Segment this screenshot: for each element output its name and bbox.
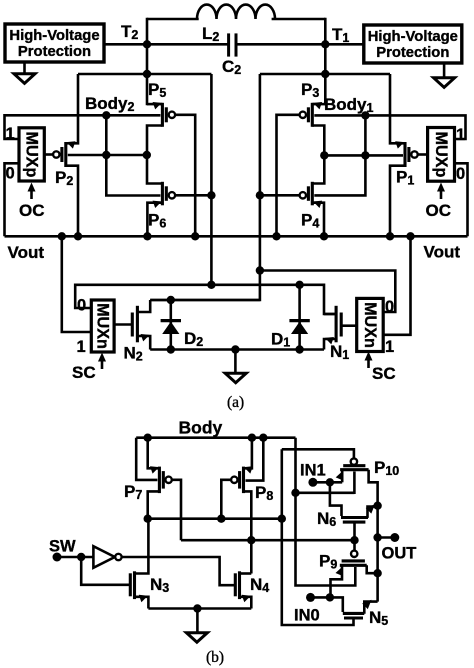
wire IN0 to N5 xyxy=(330,597,343,612)
node phaseA P7drain xyxy=(144,515,152,523)
transistor P4 channel xyxy=(311,182,314,206)
wire OUT stub xyxy=(378,536,395,539)
wire MUXn-left output xyxy=(114,323,132,326)
wire MUXn-right output xyxy=(341,324,357,327)
transistor P4 gate xyxy=(307,186,310,201)
node Vout muxn1-left xyxy=(58,232,66,240)
high-voltage protection box left xyxy=(5,24,104,62)
wire Body rail xyxy=(136,436,295,439)
wire P10 body branch xyxy=(296,491,355,494)
wire IN0 xyxy=(311,596,330,599)
node IN1 junction xyxy=(326,478,334,486)
mux MUXp right box xyxy=(428,128,455,182)
node Vout P4 source xyxy=(320,232,328,240)
wire body drop xyxy=(296,438,356,586)
wire P6 gate line xyxy=(175,194,212,197)
transistor P7 drain xyxy=(148,491,160,518)
node D2 bottom xyxy=(167,345,175,353)
transistor N1 source xyxy=(324,339,336,350)
transistor P10 gate bubble xyxy=(351,458,357,464)
svg-text:Body1: Body1 xyxy=(324,95,374,115)
svg-text:Protection: Protection xyxy=(18,44,91,60)
wire P2 body line y155 xyxy=(68,154,147,157)
transistor N4 gate xyxy=(234,573,237,596)
svg-text:IN0: IN0 xyxy=(294,607,320,625)
svg-text:Body: Body xyxy=(179,418,223,438)
transistor N1 channel xyxy=(335,306,338,343)
node gates-drop P4 gate xyxy=(256,191,264,199)
svg-text:High-Voltage: High-Voltage xyxy=(9,28,99,44)
transistor P2 gate bubble xyxy=(53,151,59,157)
node gates-drop to y285 xyxy=(207,281,215,289)
transistor N3 source xyxy=(135,597,149,609)
node phaseA P8gate xyxy=(217,515,225,523)
oc arrow left xyxy=(30,189,33,200)
svg-text:IN1: IN1 xyxy=(300,462,326,480)
wire P8 gate riser to phaseA xyxy=(221,480,231,519)
transistor P3 gate bubble xyxy=(300,112,306,118)
wire MUXp-left input 0 from Vout xyxy=(5,163,20,236)
wire IN1 xyxy=(313,481,342,484)
transistor P8 body wrap xyxy=(246,438,264,481)
node OUT stub xyxy=(373,533,381,541)
capacitor C2 xyxy=(227,33,230,56)
node on T1 rail y74 xyxy=(321,70,329,78)
ground below right HV box xyxy=(443,63,446,78)
node body1-drop on P1 body line xyxy=(361,151,369,159)
svg-text:Vout: Vout xyxy=(8,243,45,262)
transistor P9 source xyxy=(331,565,343,597)
node IN0 junction xyxy=(326,593,334,601)
node OUT terminal xyxy=(390,533,399,542)
sc arrow right xyxy=(367,358,370,369)
transistor P10 drain xyxy=(369,470,378,506)
wire Vout rail xyxy=(5,235,468,238)
transistor N6 gate xyxy=(343,521,366,524)
wire MUXn-left input1 from Vout xyxy=(62,236,92,332)
node OUT P9drain xyxy=(373,569,381,577)
node phaseA riser xyxy=(278,515,286,523)
transistor N2 drain xyxy=(137,300,150,312)
transistor P2 source xyxy=(66,74,78,143)
transistor P8 gate bubble xyxy=(231,477,237,483)
wire bottom rail xyxy=(150,348,324,351)
transistor P10 gate xyxy=(343,464,365,467)
oc arrow right xyxy=(440,189,443,200)
transistor P8 source xyxy=(244,438,252,469)
node Vout muxn1-right xyxy=(406,232,414,240)
transistor P6 drain stub xyxy=(147,155,162,184)
transistor P10 source xyxy=(341,470,344,483)
transistor N1 drain xyxy=(324,313,336,316)
transistor P1 channel xyxy=(403,142,406,167)
wire T1-to-gates drop xyxy=(150,74,260,300)
ground b xyxy=(196,609,199,633)
node SW junction xyxy=(77,553,85,561)
transistor P6 source stub xyxy=(147,203,162,237)
node T1-drop y270 xyxy=(256,266,264,274)
node Vout P1 drain xyxy=(386,232,394,240)
node Vout P2 drain xyxy=(74,232,82,240)
ground below left HV box xyxy=(23,62,26,74)
transistor N1 gate xyxy=(340,313,343,337)
svg-text:0: 0 xyxy=(77,297,86,315)
wire P5 gate to Vout xyxy=(175,115,196,237)
sc arrow left xyxy=(101,359,104,370)
transistor P7 body wrap xyxy=(136,438,157,480)
node body drop P10 branch xyxy=(291,489,299,497)
svg-text:OUT: OUT xyxy=(382,545,417,563)
wire D2 top rail xyxy=(150,299,260,302)
transistor N3 gate xyxy=(129,573,132,596)
transistor N6 gate stub xyxy=(353,522,356,540)
transistor P6 gate bubble xyxy=(169,192,175,198)
svg-text:(b): (b) xyxy=(206,649,224,666)
transistor P5 channel xyxy=(161,103,164,127)
inductor L2 xyxy=(197,5,275,19)
wire body2 drop to P2-body line and P6 body xyxy=(106,115,160,195)
node T1 junction xyxy=(321,40,329,48)
transistor P9 gate bubble xyxy=(351,551,357,557)
wire IN1 to N6 xyxy=(330,482,342,516)
transistor N3 channel xyxy=(133,571,136,599)
node OUT P10drain xyxy=(373,502,381,510)
svg-text:Body2: Body2 xyxy=(85,94,135,114)
transistor P1 gate xyxy=(407,147,410,162)
transistor P9 drain xyxy=(367,565,378,573)
node b ground xyxy=(193,604,201,612)
transistor P9 channel xyxy=(340,564,367,567)
transistor P4 source stub xyxy=(312,203,324,237)
node T2 junction xyxy=(143,40,151,48)
transistor P2 channel xyxy=(64,142,67,167)
transistor P2 drain xyxy=(66,166,78,237)
wire top rail between T2 and T1 xyxy=(147,18,199,21)
transistor P7 channel xyxy=(158,467,161,494)
wire C2 horizontal xyxy=(104,43,229,46)
transistor N5 gate xyxy=(344,616,363,619)
node P7 source on rail xyxy=(144,434,152,442)
diode D1 xyxy=(298,285,301,350)
node Body2 tap xyxy=(102,111,110,119)
svg-text:SC: SC xyxy=(372,364,396,383)
transistor P5 gate bubble xyxy=(169,112,175,118)
svg-text:High-Voltage: High-Voltage xyxy=(368,29,458,45)
transistor P3 gate xyxy=(307,107,310,122)
svg-text:MUXp: MUXp xyxy=(23,131,41,177)
transistor P6 gate xyxy=(165,186,168,201)
node P5P6 junction xyxy=(143,151,151,159)
transistor P10 body stub xyxy=(353,472,356,495)
svg-text:0: 0 xyxy=(6,165,15,183)
mux MUXn left box xyxy=(91,300,114,352)
wire P7 gate riser to phaseB xyxy=(171,480,181,540)
svg-text:(a): (a) xyxy=(227,394,244,411)
wire Body1 line xyxy=(314,115,465,139)
wire phaseB line y540.2 xyxy=(181,539,355,542)
wire MUXp-right output to P1 gate xyxy=(418,153,428,156)
svg-text:MUXp: MUXp xyxy=(432,131,450,177)
transistor N4 source xyxy=(240,597,252,609)
transistor N6 source xyxy=(368,507,378,518)
wire P1 body line y155 xyxy=(324,154,403,157)
node P3P4 junction xyxy=(320,151,328,159)
transistor N6 channel xyxy=(341,516,368,519)
transistor N3 drain xyxy=(135,519,149,574)
transistor P5 gate xyxy=(165,107,168,122)
transistor P2 gate xyxy=(60,147,63,162)
wire MUXp-right input 0 from Vout xyxy=(455,163,468,236)
svg-text:1: 1 xyxy=(6,125,15,143)
node body2-drop on P2 body line xyxy=(102,151,110,159)
wire phaseB to P9 bubble xyxy=(353,540,356,550)
wire y74 right (gates-drop to T1 to P1 source) xyxy=(260,73,390,76)
transistor P5 drain stub xyxy=(147,126,162,156)
node Body1 tap xyxy=(361,111,369,119)
wire phaseA line y518.7 xyxy=(148,517,282,520)
wire b ground rail xyxy=(148,607,251,610)
transistor P10 channel xyxy=(340,468,369,471)
svg-text:MUXn: MUXn xyxy=(94,303,112,349)
node D1 bottom xyxy=(295,345,303,353)
node IN1 terminal xyxy=(308,478,317,487)
wire T2 rail xyxy=(146,18,149,106)
wire Body2 line xyxy=(5,115,161,139)
node IN0 terminal xyxy=(306,593,315,602)
transistor P4 gate bubble xyxy=(300,192,306,198)
svg-text:1: 1 xyxy=(456,126,465,144)
transistor P3 drain stub xyxy=(312,126,324,156)
transistor P8 gate xyxy=(238,471,241,489)
node Vout P5 gate xyxy=(191,232,199,240)
transistor P7 gate bubble xyxy=(165,477,171,483)
transistor N2 source xyxy=(137,336,150,350)
svg-text:1: 1 xyxy=(385,338,394,356)
wire SW to N3 gate xyxy=(81,557,130,585)
transistor P5 source stub xyxy=(147,103,162,106)
svg-text:OC: OC xyxy=(426,201,452,220)
mux MUXn right box xyxy=(357,298,384,351)
wire N-left drain rail y285 xyxy=(75,285,335,314)
transistor P8 drain xyxy=(244,491,252,573)
svg-text:MUXn: MUXn xyxy=(361,302,379,348)
transistor P9 gate xyxy=(342,559,365,562)
transistor N4 drain xyxy=(240,572,252,575)
transistor N2 gate xyxy=(131,313,134,337)
node SW terminal xyxy=(53,553,62,562)
svg-text:0: 0 xyxy=(456,165,465,183)
node phaseB gate stub xyxy=(350,536,358,544)
wire T1 rail xyxy=(324,18,327,106)
wire y74 left (P2 source to T2 to gates-drop) xyxy=(78,73,211,76)
mux MUXp left box xyxy=(19,128,44,181)
transistor P1 source xyxy=(390,74,405,143)
inverter U1 xyxy=(93,546,114,568)
node mid-ground xyxy=(231,345,239,353)
node phaseB N4drain xyxy=(247,536,255,544)
svg-text:OC: OC xyxy=(19,201,45,220)
transistor N2 channel xyxy=(136,306,139,343)
node on T2 rail y74 xyxy=(143,70,151,78)
wire P3 gate to Vout xyxy=(277,115,301,237)
transistor N5 source xyxy=(364,602,377,614)
node P8 body on rail xyxy=(259,434,267,442)
wire P4 gate line xyxy=(260,194,300,197)
transistor P8 channel xyxy=(242,467,245,494)
svg-text:Protection: Protection xyxy=(376,45,449,61)
transistor N5 channel xyxy=(343,612,365,615)
wire y270 to MUXn-right 0 xyxy=(260,271,395,313)
wire MUXp-left output to P2 gate xyxy=(44,153,53,156)
node Vout P3 gate xyxy=(272,232,280,240)
transistor P3 source stub xyxy=(312,103,325,106)
wire SW to inverter xyxy=(57,556,93,559)
wire body1 drop xyxy=(314,115,365,195)
diode D2 xyxy=(170,300,173,350)
transistor P1 gate bubble xyxy=(411,151,417,157)
svg-text:1: 1 xyxy=(77,338,86,356)
transistor N4 channel xyxy=(238,571,241,599)
svg-text:SC: SC xyxy=(72,363,96,382)
transistor P1 drain xyxy=(390,166,405,237)
transistor P4 drain stub xyxy=(312,155,324,183)
node gates-drop P6 gate xyxy=(207,191,215,199)
svg-text:Vout: Vout xyxy=(424,243,461,262)
wire inverter output xyxy=(122,557,235,585)
high-voltage protection box right xyxy=(364,25,462,63)
ground middle xyxy=(234,350,237,374)
node P8 source on rail xyxy=(248,434,256,442)
transistor P3 channel xyxy=(311,103,314,127)
transistor P7 source xyxy=(148,438,160,469)
transistor P7 gate xyxy=(162,471,165,489)
node Vout P6 source xyxy=(143,232,151,240)
wire OUT riser xyxy=(376,506,379,602)
wire T2-to-gates drop xyxy=(210,74,213,285)
svg-text:SW: SW xyxy=(49,538,76,556)
node D2 top xyxy=(167,296,175,304)
wire MUXn-right input1 from Vout xyxy=(383,236,410,334)
wire phaseA top to P10 gate xyxy=(282,449,354,458)
svg-text:0: 0 xyxy=(385,298,394,316)
node D1 top xyxy=(295,281,303,289)
wire phaseA riser xyxy=(282,449,354,625)
transistor P6 channel xyxy=(161,182,164,206)
